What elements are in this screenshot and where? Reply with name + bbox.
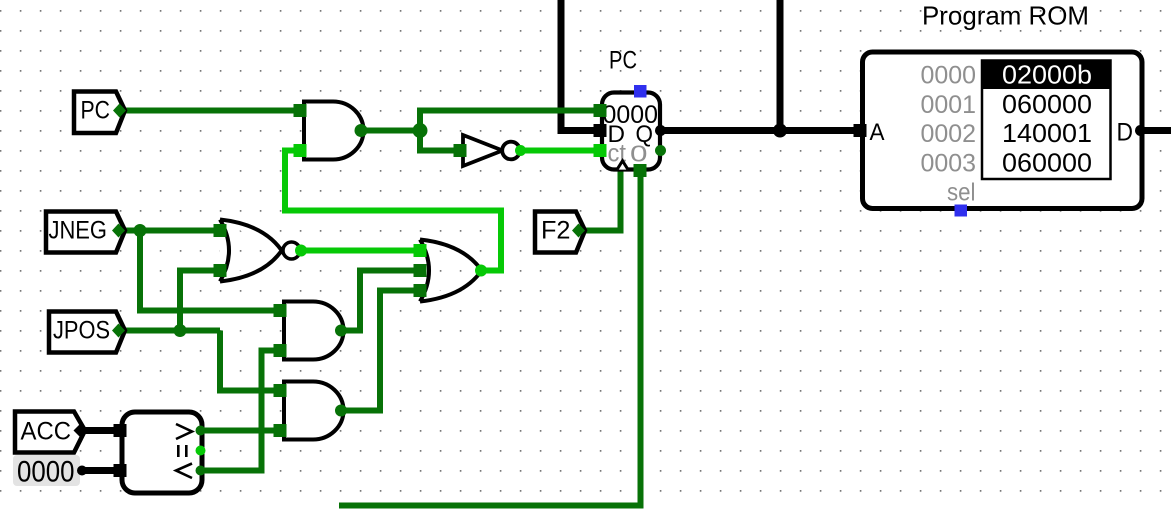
wire: comparator greater output to AND gate A3 input 2 [200,428,280,434]
wire: OR gate output up and left to AND gate A1 input 2 [285,151,501,271]
register PC [594,47,667,178]
wire: NOR gate output to OR gate input 1 [301,248,420,254]
svg-text:060000: 060000 [1002,147,1092,177]
wire: NOT gate output to register PC ct input [520,148,600,154]
NOT gate N1 [454,135,527,166]
wire: AND gate A1 output to junction node [361,128,420,134]
svg-text:JNEG: JNEG [49,217,108,245]
svg-text:D: D [1117,119,1134,147]
svg-text:ACC: ACC [21,418,72,446]
svg-text:A: A [870,119,885,146]
svg-text:PC: PC [81,97,111,125]
wire: F2 input to register PC clock [580,168,621,231]
wire: JPOS branch up to NOR gate input 2 [180,271,220,331]
AND gate A3 [274,382,348,440]
junction node on JPOS wire [174,324,187,337]
svg-text:JPOS: JPOS [53,317,110,345]
svg-text:060000: 060000 [1002,89,1092,119]
svg-text:F2: F2 [541,217,571,245]
comparator CMP1 [114,412,206,493]
svg-text:Program ROM: Program ROM [922,1,1089,31]
svg-text:0002: 0002 [921,120,977,148]
svg-text:sel: sel [947,179,976,207]
wire: JNEG input to NOR gate input 1 [120,228,220,234]
wire: comparator less output to AND gate A2 input 2 [200,351,280,471]
constant 0000 [13,455,87,489]
svg-text:0: 0 [630,141,648,167]
svg-text:0000: 0000 [921,62,977,90]
AND gate A2 [274,302,348,360]
svg-text:0001: 0001 [921,91,977,119]
input label PC [74,92,126,134]
svg-text:140001: 140001 [1002,118,1092,148]
wire: bus constant 0000 to comparator input b [80,467,120,474]
wire: JPOS branch down to AND gate A3 input 1 [220,331,280,391]
wire: bus from top to Q output bus junction [777,0,784,131]
svg-text:0003: 0003 [921,149,977,177]
svg-text:0000: 0000 [17,456,75,489]
OR gate O1 [414,240,488,302]
NOR gate N2 [214,220,308,282]
wire: AND gate A3 output to OR gate input 3 [341,291,420,411]
wire: PC input to AND gate A1 input 1 [120,108,300,114]
junction node on Q output bus [773,124,787,138]
wire: junction up to register PC enable input [420,111,600,131]
wire: bus register PC Q output to ROM address pin A [660,127,860,134]
AND gate A1 [294,102,368,160]
wire: bus ROM data output D to right edge [1140,127,1171,134]
wire: JNEG branch down to AND gate A2 input 1 [140,231,280,311]
svg-text:PC: PC [609,47,637,75]
input label JPOS [49,312,125,353]
Program ROM U1 [854,1,1147,217]
wire: bus from top into register PC D input [561,0,600,131]
junction node at AND A1 output wire [413,123,428,138]
input label F2 [535,212,585,253]
wire: junction down to NOT gate input [420,131,460,151]
wire: AND gate A2 output to OR gate input 2 [341,271,420,331]
wire: register PC en pin down and left along bottom [339,170,641,506]
wire: bus ACC input to comparator input a [80,427,120,434]
svg-text:02000b: 02000b [1002,60,1092,90]
wire: JPOS input to junction [120,328,220,334]
input label JNEG [46,212,125,253]
junction node on JNEG wire [134,224,147,237]
input label ACC [15,412,88,453]
